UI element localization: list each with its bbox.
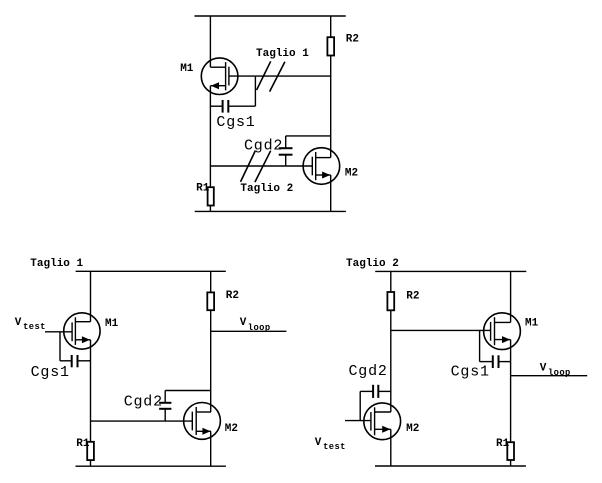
wire left vertical lower (M1 source to R1) (209, 86, 211, 188)
svg-text:R1: R1 (196, 183, 210, 195)
wire Cgd2 top link (286, 135, 331, 137)
svg-text:R2: R2 (346, 33, 359, 45)
wire V_test lead (45, 331, 72, 333)
wire left vertical (top rail to M1 drain) (90, 271, 92, 321)
wire bottom rail (76, 465, 226, 467)
wire M2 gate rail (210, 165, 312, 167)
wire Cgs1 connector vertical (254, 76, 256, 106)
wire R1 to bottom rail (209, 206, 211, 212)
transistor M1 (201, 58, 238, 95)
cut mark Taglio 1 slash b (270, 62, 285, 92)
svg-text:M1: M1 (525, 318, 539, 330)
transistor M1 (64, 313, 100, 349)
wire left vertical (top rail to R2) (390, 271, 392, 292)
wire right vertical middle (R2 to M2 drain) (330, 56, 332, 158)
wire Cgd2 top link (165, 390, 211, 392)
svg-text:M1: M1 (105, 318, 119, 330)
svg-text:Cgd2: Cgd2 (349, 363, 388, 380)
svg-text:Taglio 1: Taglio 1 (30, 258, 83, 270)
cut mark Taglio 2 slash b (255, 151, 271, 182)
wire M1 gate to right rail (229, 75, 331, 77)
resistor R2 (327, 37, 334, 55)
transistor M1 (484, 313, 521, 350)
label V_loop (540, 362, 571, 378)
svg-text:Taglio 2: Taglio 2 (240, 183, 293, 195)
wire right vertical lower (M2 source to bottom rail) (330, 175, 332, 211)
label V_test (15, 317, 46, 332)
label V_test (315, 437, 346, 452)
wire right vertical (top rail to R2) (210, 271, 212, 292)
wire right vertical upper (top rail to R2) (330, 16, 332, 37)
capacitor Cgd2 (159, 391, 171, 422)
svg-text:V: V (240, 317, 247, 329)
wire V_loop lead (211, 330, 287, 332)
svg-text:R2: R2 (406, 290, 419, 302)
wire M1 source vertical down (90, 340, 92, 442)
svg-text:Taglio 2: Taglio 2 (346, 258, 399, 270)
wire right vertical (R2 to M2 drain) (210, 310, 212, 412)
wire M2 source to bottom rail (210, 431, 212, 466)
capacitor Cgs1 (210, 100, 255, 113)
svg-text:Cgd2: Cgd2 (124, 393, 163, 410)
wire gate link rail to M1 (391, 329, 491, 331)
wire R1 to bottom rail (90, 460, 92, 466)
svg-text:Cgs1: Cgs1 (216, 114, 255, 131)
wire top rail (195, 15, 346, 17)
resistor R1 (507, 442, 514, 460)
svg-text:M2: M2 (225, 423, 238, 435)
wire left vertical upper (top rail to M1 drain) (209, 16, 211, 67)
svg-text:loop: loop (248, 323, 271, 333)
wire right vertical (M1 source to R1) (510, 340, 512, 443)
svg-text:Cgd2: Cgd2 (244, 138, 283, 155)
wire Cgs1 gate drop (479, 330, 481, 361)
svg-text:loop: loop (548, 368, 571, 378)
svg-text:M2: M2 (406, 423, 419, 435)
transistor M2 (184, 403, 221, 440)
svg-text:V: V (540, 362, 547, 374)
wire right vertical upper (top rail to M1 drain) (510, 271, 512, 322)
wire top rail (375, 270, 526, 272)
capacitor Cgs1 (60, 355, 91, 367)
svg-text:R1: R1 (76, 438, 90, 450)
wire bottom rail (375, 465, 526, 467)
svg-text:R2: R2 (226, 290, 239, 302)
wire left vertical (R2 to M2 drain) (390, 310, 392, 412)
wire V_loop lead (511, 375, 588, 377)
resistor R2 (207, 292, 214, 310)
svg-text:test: test (23, 322, 46, 332)
wire top rail (76, 270, 226, 272)
svg-text:Taglio 1: Taglio 1 (256, 48, 309, 60)
svg-text:Cgs1: Cgs1 (31, 364, 70, 381)
capacitor Cgd2 (360, 385, 391, 398)
svg-text:V: V (15, 317, 22, 329)
wire Cgd2 left drop (359, 391, 361, 420)
cut mark Taglio 2 slash a (241, 151, 256, 182)
transistor M2 (364, 403, 401, 440)
wire R1 to bottom rail (510, 460, 512, 466)
resistor R1 (208, 187, 214, 205)
capacitor Cgs1 (480, 355, 511, 368)
svg-text:M1: M1 (180, 63, 194, 75)
transistor M2 (303, 148, 340, 185)
capacitor Cgd2 (279, 136, 293, 166)
svg-text:test: test (323, 442, 346, 452)
svg-text:M2: M2 (345, 168, 358, 180)
wire V_test lead (345, 420, 371, 422)
svg-text:V: V (315, 437, 322, 449)
svg-text:R1: R1 (496, 438, 510, 450)
label V_loop (240, 317, 271, 333)
resistor R1 (87, 442, 94, 460)
resistor R2 (387, 292, 394, 310)
wire M2 source to bottom rail (390, 429, 392, 466)
wire bottom rail (195, 210, 346, 212)
wire Cgs1 gate drop (59, 332, 61, 361)
wire M2 gate rail (91, 420, 193, 422)
cut mark Taglio 1 slash a (257, 61, 271, 90)
svg-text:Cgs1: Cgs1 (451, 364, 490, 381)
